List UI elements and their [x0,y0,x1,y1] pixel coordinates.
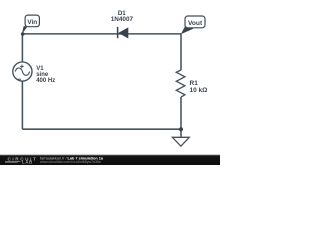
svg-text:Vout: Vout [188,20,203,27]
svg-text:1N4007: 1N4007 [111,16,134,23]
svg-text:www.circuitlab.com/c/cn6nt68yw: www.circuitlab.com/c/cn6nt68yw7n36e [40,160,101,164]
svg-text:10 kΩ: 10 kΩ [190,87,208,94]
svg-text:R1: R1 [190,80,199,87]
svg-text:LAB: LAB [22,160,33,165]
svg-text:Vin: Vin [27,19,37,26]
svg-text:400 Hz: 400 Hz [36,78,55,84]
